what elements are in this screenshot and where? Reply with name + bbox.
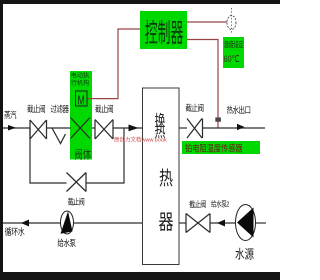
svg-text:器: 器	[159, 211, 174, 234]
svg-text:阀体: 阀体	[74, 147, 91, 162]
svg-text:控制器: 控制器	[145, 19, 184, 48]
svg-text:水源: 水源	[235, 246, 254, 262]
svg-text:蒸汽: 蒸汽	[4, 109, 17, 120]
svg-text:热: 热	[159, 167, 173, 189]
svg-text:循环水: 循环水	[5, 226, 25, 237]
svg-text:截止阀: 截止阀	[95, 103, 113, 114]
svg-text:电动执: 电动执	[71, 72, 90, 80]
svg-text:给水泵2: 给水泵2	[211, 199, 230, 209]
svg-text:M: M	[78, 94, 85, 108]
svg-text:给水泵: 给水泵	[57, 237, 76, 248]
svg-text:60℃: 60℃	[224, 53, 240, 64]
svg-text:截止阀: 截止阀	[189, 199, 206, 209]
svg-text:原创力文档www.book: 原创力文档www.book	[114, 136, 167, 144]
svg-text:截止阀: 截止阀	[27, 103, 45, 114]
svg-text:截止阀: 截止阀	[68, 197, 85, 207]
svg-text:行机构: 行机构	[71, 79, 90, 87]
svg-text:热水出口: 热水出口	[226, 104, 250, 115]
svg-text:过滤器: 过滤器	[50, 103, 69, 114]
svg-text:温度设定: 温度设定	[224, 39, 245, 49]
svg-text:截止阀: 截止阀	[185, 102, 203, 113]
svg-text:铂电阻温度传感器: 铂电阻温度传感器	[185, 143, 243, 154]
